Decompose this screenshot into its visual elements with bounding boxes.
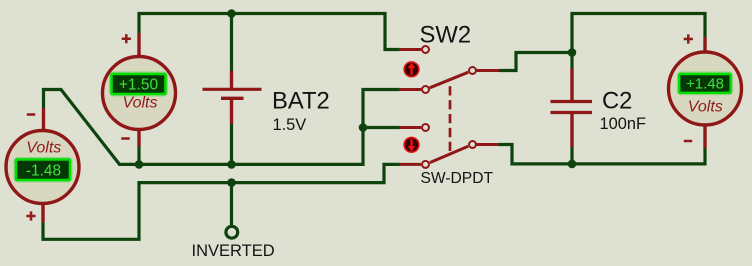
V3 body circle <box>669 52 742 125</box>
wire: C2 top lead green part <box>570 53 573 69</box>
V1 body circle <box>103 57 176 130</box>
wire: INVERTED net, lower bus from V2 bottom pin to SW2 contact 2b <box>43 164 400 239</box>
svg-text:1.5V: 1.5V <box>273 116 307 134</box>
wire: V1 bottom pin to upper bus <box>137 146 140 164</box>
contact circle 2a <box>422 124 429 131</box>
V2 bottom pin stub <box>41 202 44 222</box>
V3 top pin stub <box>703 37 706 54</box>
battery top pin stub <box>230 71 233 88</box>
V2 LCD display <box>16 160 70 181</box>
pin stub to contact 2b <box>399 163 421 166</box>
wire: battery- net, upper bus from V2 top pin via diagonal to SW2 contacts 1b/2a <box>44 90 401 165</box>
voltmeter U3 (right, +1.48) <box>669 34 742 148</box>
wire: C2 bottom lead green part <box>570 147 573 164</box>
contact circle 1b <box>422 86 429 93</box>
wire: branch from mid junction to SW2 contact 2a <box>363 126 400 129</box>
V3 plus label <box>684 34 693 43</box>
node junction dot V1- on upper bus <box>135 160 144 169</box>
pin stub from common 2 <box>477 143 499 146</box>
wire: SW2 common1 to C2 top and V3 + pin <box>499 14 705 71</box>
contact circle 2b <box>422 161 429 168</box>
svg-text:INVERTED: INVERTED <box>192 242 275 260</box>
V1 top pin stub <box>137 33 140 58</box>
V1 LCD display <box>112 74 166 94</box>
V1 minus label <box>121 137 129 140</box>
svg-text:Volts: Volts <box>123 95 158 112</box>
svg-text:SW-DPDT: SW-DPDT <box>421 170 494 187</box>
node junction dot at C2 top <box>568 48 577 57</box>
svg-text:C2: C2 <box>602 87 632 114</box>
V3 bottom pin stub <box>703 123 706 148</box>
V3 minus label <box>684 140 692 143</box>
node INVERTED open terminal <box>226 226 238 238</box>
battery BAT2 <box>203 71 262 124</box>
node junction dot battery- on upper bus <box>227 160 236 169</box>
voltmeter U1 (top left, +1.50) <box>103 33 176 146</box>
C2 bottom lead stub <box>570 114 573 147</box>
lever pole 1 <box>430 72 469 88</box>
pin stub from common 1 <box>477 69 500 72</box>
pin stub to contact 2a <box>399 126 421 129</box>
actuator button up <box>403 61 419 77</box>
V3 LCD display <box>679 74 731 93</box>
actuator button down <box>403 137 419 153</box>
svg-text:SW2: SW2 <box>420 21 472 48</box>
pin stub to contact 1b <box>399 88 421 91</box>
node junction dot at C2 bottom on bus <box>568 160 577 169</box>
contact circle common 2 <box>469 141 476 148</box>
wire: battery top lead drop <box>230 14 233 72</box>
capacitor C2 <box>551 69 593 148</box>
battery top plate (long) <box>203 88 262 91</box>
wire: battery+ net, top bus from V1 top pin to SW2 contact 1a <box>139 14 400 50</box>
switch SW2 (SW-DPDT) <box>399 46 499 168</box>
lever pole 2 <box>430 146 468 162</box>
C2 top plate <box>551 100 593 103</box>
svg-text:+1.50: +1.50 <box>119 76 159 93</box>
contact circle 1a <box>422 46 429 53</box>
V2 plus label <box>26 211 35 220</box>
wire: SW2 common2 to bottom-right bus and V3 - pin <box>499 145 706 164</box>
C2 bottom plate <box>551 111 593 114</box>
svg-text:Volts: Volts <box>26 139 61 156</box>
mechanical link dashed line <box>449 86 452 151</box>
V1 plus label <box>122 34 131 43</box>
V2 body circle <box>6 131 79 204</box>
node junction dot at top bus / battery <box>227 9 236 18</box>
svg-text:-1.48: -1.48 <box>26 162 61 179</box>
svg-text:BAT2: BAT2 <box>272 88 330 115</box>
contact circle common 1 <box>469 67 476 74</box>
node junction dot on lower bus at INVERTED drop <box>227 178 236 187</box>
battery bottom pin stub <box>230 100 233 125</box>
wire: battery bottom lead to upper bus <box>230 124 233 164</box>
V2 top pin stub <box>42 108 45 131</box>
V1 bottom pin stub <box>137 128 140 146</box>
svg-text:+1.48: +1.48 <box>686 76 724 93</box>
pin stub to contact 1a <box>399 48 421 51</box>
wire: drop to INVERTED terminal <box>230 183 233 226</box>
svg-text:Volts: Volts <box>688 99 723 116</box>
V2 minus label <box>27 113 35 116</box>
voltmeter U2 (bottom left, -1.48) <box>6 108 79 222</box>
C2 top lead stub <box>570 69 573 101</box>
svg-text:100nF: 100nF <box>600 115 646 133</box>
battery bottom plate (short) <box>221 97 244 100</box>
node junction dot at x363 branch <box>359 123 368 132</box>
